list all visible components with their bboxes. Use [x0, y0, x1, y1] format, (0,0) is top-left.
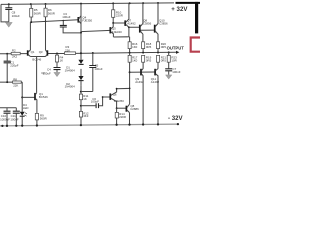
wire +32V top rail: [1, 3, 174, 5]
diode D1: [65, 60, 84, 73]
wire bias branch: [80, 105, 82, 107]
wire Q5 base: [81, 30, 110, 31]
svg-text:220R: 220R: [116, 14, 123, 18]
svg-text:100nF: 100nF: [172, 70, 180, 74]
svg-text:Q3: Q3: [39, 50, 43, 54]
capacitor C11: [10, 108, 19, 126]
svg-text:1000uF: 1000uF: [0, 117, 10, 121]
svg-text:FJE340: FJE340: [112, 30, 122, 34]
svg-text:100uF: 100uF: [43, 71, 51, 75]
svg-text:0R5: 0R5: [161, 59, 167, 63]
svg-text:10R: 10R: [171, 59, 176, 63]
resistor R16: [128, 37, 138, 53]
transistor Q12 bias: [126, 104, 139, 113]
capacitor C1: [4, 54, 19, 82]
wire thick +32V supply lead: [176, 2, 201, 4]
resistor R10: [112, 3, 123, 23]
svg-text:C3856: C3856: [143, 21, 152, 25]
svg-text:1K: 1K: [83, 97, 87, 101]
svg-text:A1492: A1492: [135, 80, 144, 84]
svg-text:1N4004: 1N4004: [65, 85, 76, 89]
capacitor C5: [89, 53, 103, 91]
wire Q7 base: [113, 22, 125, 24]
svg-text:Q6: Q6: [113, 93, 117, 97]
svg-text:Q1: Q1: [31, 50, 35, 54]
wire driver collector join: [117, 87, 130, 89]
transistor Q4: [78, 16, 92, 24]
capacitor C6: [91, 97, 103, 108]
resistor R3 feedback: [65, 45, 76, 54]
svg-text:100uF: 100uF: [62, 15, 70, 19]
resistor R12: [79, 111, 88, 118]
resistor R18: [142, 42, 152, 53]
resistor R8: [0, 77, 22, 87]
resistor R17: [128, 53, 138, 125]
svg-text:C2886: C2886: [130, 107, 139, 111]
svg-text:FJE350: FJE350: [82, 18, 92, 22]
svg-text:A1492: A1492: [127, 21, 136, 25]
wire Q1 base branch: [22, 96, 35, 98]
diode D2: [65, 76, 84, 89]
capacitor C10: [0, 108, 10, 126]
svg-text:1K0: 1K0: [132, 59, 138, 63]
svg-text:0R5: 0R5: [146, 59, 152, 63]
resistor R11: [79, 91, 92, 101]
resistor R20: [157, 42, 167, 53]
ground under C8: [5, 22, 12, 27]
wire R8 to LED column: [21, 82, 23, 112]
svg-text:560R: 560R: [40, 117, 47, 121]
svg-text:- 32V: - 32V: [168, 115, 184, 122]
resistor R4: [55, 53, 63, 67]
svg-text:22K: 22K: [65, 48, 70, 52]
resistor R5: [30, 4, 41, 22]
transistor Q2 tail: [35, 92, 48, 113]
svg-text:1K: 1K: [60, 59, 64, 63]
svg-text:FJE350: FJE350: [114, 99, 124, 103]
capacitor C3: [60, 12, 81, 33]
wire ground bus bottom left: [0, 107, 16, 109]
transistor Q6: [102, 89, 125, 109]
svg-text:1N4004: 1N4004: [65, 69, 76, 73]
svg-text:R2: R2: [12, 49, 16, 53]
transistor Q1 input pair: [28, 22, 35, 56]
svg-text:+ 32V: + 32V: [171, 6, 188, 13]
wire central spine: [80, 4, 82, 125]
svg-text:A1492: A1492: [151, 80, 160, 84]
wire input: [0, 53, 28, 55]
svg-text:100nF: 100nF: [10, 117, 18, 121]
transistor Q7: [125, 3, 136, 37]
wire lower output bases: [130, 71, 156, 73]
wire left edge input ground branch: [1, 4, 9, 22]
svg-text:OUTPUT: OUTPUT: [167, 45, 185, 50]
red logo box cropped: [191, 38, 201, 52]
svg-text:1K0: 1K0: [132, 45, 138, 49]
svg-text:22K: 22K: [13, 83, 18, 87]
svg-text:220R: 220R: [119, 115, 126, 119]
ground under C7: [166, 75, 172, 79]
resistor R9: [35, 113, 46, 125]
svg-text:C3856: C3856: [159, 21, 168, 25]
ground under C4: [54, 72, 60, 76]
wire Q4 base feed: [31, 20, 78, 22]
capacitor C4: [43, 68, 61, 76]
wire output feedback bus: [47, 52, 176, 53]
svg-text:560R: 560R: [48, 11, 55, 15]
LED D4: [20, 103, 29, 125]
resistor R2: [11, 49, 20, 59]
capacitor C7: [165, 67, 181, 75]
wire -32V bottom rail: [0, 124, 178, 126]
transistor Q3 input pair: [32, 21, 47, 61]
resistor R6: [44, 4, 55, 22]
resistor R14: [115, 107, 126, 124]
transistor Q11: [151, 69, 160, 125]
transistor Q9: [135, 69, 144, 125]
wire emitter join + tail: [30, 57, 45, 93]
svg-text:LED: LED: [23, 106, 29, 110]
svg-text:R8: R8: [13, 77, 17, 81]
OUTPUT arrow: [176, 51, 179, 54]
svg-text:100pF: 100pF: [91, 100, 99, 104]
transistor Q10: [155, 3, 168, 42]
svg-text:220pF: 220pF: [10, 63, 18, 67]
svg-text:3K3: 3K3: [83, 114, 89, 118]
svg-text:560R: 560R: [34, 12, 41, 16]
resistor R19: [142, 55, 152, 68]
transistor Q5: [110, 23, 122, 37]
svg-text:2K2: 2K2: [12, 55, 18, 59]
resistor R23 zobel: [167, 52, 177, 68]
svg-text:BC546: BC546: [39, 95, 48, 99]
wire upper output bases: [129, 27, 155, 30]
svg-text:0R5: 0R5: [146, 45, 152, 49]
transistor Q8: [140, 3, 152, 42]
svg-text:100uF: 100uF: [12, 14, 20, 18]
wire Q5 emitter feed: [113, 36, 129, 38]
capacitor C8: [5, 4, 20, 22]
svg-text:100uF: 100uF: [94, 67, 102, 71]
resistor R21: [157, 55, 167, 68]
svg-text:0R5: 0R5: [161, 45, 167, 49]
